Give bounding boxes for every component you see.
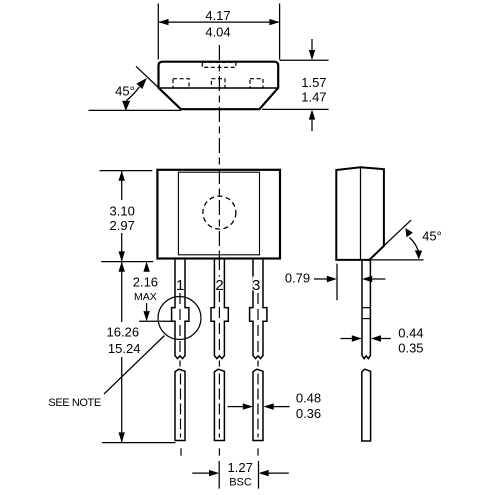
side lead upper segment with break bbox=[362, 260, 370, 359]
svg-text:2.97: 2.97 bbox=[110, 218, 135, 233]
SEE NOTE leader line bbox=[104, 336, 165, 395]
svg-text:45°: 45° bbox=[422, 228, 442, 243]
dimension 0.79 bbox=[285, 264, 386, 301]
lead 1 upper segment with shoulder and break bbox=[172, 259, 189, 359]
svg-text:0.36: 0.36 bbox=[296, 406, 321, 421]
lead 3 upper segment with shoulder and break bbox=[250, 259, 267, 359]
svg-text:1.27: 1.27 bbox=[228, 460, 253, 475]
svg-text:3.10: 3.10 bbox=[110, 203, 135, 218]
svg-text:4.04: 4.04 bbox=[205, 24, 230, 39]
svg-text:0.35: 0.35 bbox=[398, 341, 423, 356]
lead 1 centerline bbox=[179, 293, 181, 356]
side lead lower segment bbox=[362, 369, 371, 441]
side view parting line bbox=[360, 167, 362, 260]
hidden lead 3 section (dashed) bbox=[250, 79, 263, 88]
hidden lead 1 section (dashed) bbox=[173, 79, 189, 88]
lead tip centerline dashes bbox=[180, 448, 182, 455]
hidden lead 2 section (dashed) bbox=[211, 79, 225, 88]
lead 1 lower segment bbox=[175, 369, 185, 440]
svg-text:4.17: 4.17 bbox=[205, 8, 230, 23]
svg-text:SEE NOTE: SEE NOTE bbox=[48, 397, 100, 409]
top view body outline bbox=[159, 62, 279, 109]
lead 3 lower segment bbox=[253, 369, 263, 440]
svg-text:16.26: 16.26 bbox=[107, 325, 140, 340]
top view chamfer edge line bbox=[159, 87, 279, 89]
svg-text:0.48: 0.48 bbox=[296, 391, 321, 406]
dimension 2.16 MAX bbox=[133, 262, 172, 322]
hidden hole circle (dashed) bbox=[203, 196, 236, 229]
lower lead centerlines bbox=[180, 374, 182, 438]
svg-text:45°: 45° bbox=[115, 83, 135, 98]
dimension 1.57/1.47 bbox=[262, 39, 329, 131]
dimension 4.17/4.04 bbox=[158, 4, 279, 60]
lead 2 centerline bbox=[218, 259, 220, 356]
svg-text:0.44: 0.44 bbox=[398, 325, 423, 340]
svg-text:3: 3 bbox=[252, 277, 260, 294]
side lead shoulder tick marks bbox=[362, 307, 370, 309]
45 degree chamfer callout (side view) bbox=[361, 220, 442, 260]
svg-text:2.16: 2.16 bbox=[133, 274, 158, 289]
dimension 3.10/2.97 bbox=[100, 171, 154, 262]
dimension 0.44/0.35 bbox=[340, 325, 423, 355]
svg-text:MAX: MAX bbox=[134, 291, 157, 303]
svg-text:2: 2 bbox=[215, 277, 223, 294]
SEE NOTE callout circle bbox=[158, 297, 201, 340]
front body outer outline bbox=[157, 170, 280, 259]
dimension 0.48/0.36 bbox=[228, 391, 322, 422]
lead number labels bbox=[176, 277, 183, 291]
svg-text:1: 1 bbox=[176, 277, 184, 294]
svg-text:BSC: BSC bbox=[229, 477, 252, 489]
svg-text:1.47: 1.47 bbox=[301, 90, 326, 105]
svg-text:0.79: 0.79 bbox=[285, 271, 310, 286]
dimension 16.26/15.24 bbox=[102, 262, 176, 443]
hidden center tab (dashed) bbox=[202, 62, 236, 67]
vertical centerline (top view + front view) bbox=[218, 45, 220, 258]
svg-text:15.24: 15.24 bbox=[108, 341, 141, 356]
lead 2 upper segment with shoulder and break bbox=[211, 259, 228, 359]
front body inner outline bbox=[178, 172, 259, 255]
dimension 1.27 BSC bbox=[192, 460, 289, 488]
45 degree chamfer callout (top view) bbox=[89, 66, 181, 111]
lead 3 centerline bbox=[257, 293, 259, 356]
lead 2 lower segment bbox=[214, 369, 224, 440]
side view body outline bbox=[336, 167, 384, 260]
svg-text:1.57: 1.57 bbox=[301, 75, 326, 90]
